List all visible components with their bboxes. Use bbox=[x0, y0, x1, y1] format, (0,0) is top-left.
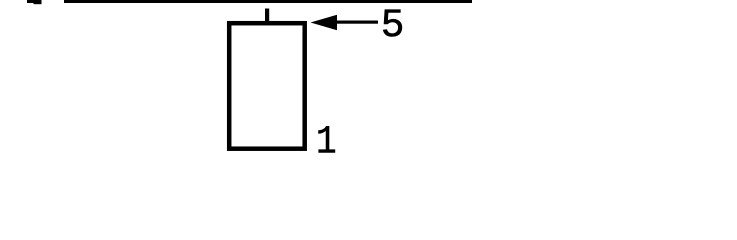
label 1 bbox=[316, 121, 337, 166]
leader arrow 5: arrowhead bbox=[311, 15, 338, 30]
node: terminal stub on top of component 1 bbox=[265, 9, 269, 23]
svg-text:5: 5 bbox=[381, 3, 405, 48]
leader arrow 5: shaft bbox=[335, 21, 378, 24]
wire: top horizontal line, short left dash bbox=[27, 0, 42, 3]
wire: blob at right end of short dash bbox=[34, 2, 42, 4]
component 1: rectangular body bbox=[229, 23, 305, 149]
svg-text:1: 1 bbox=[316, 121, 337, 158]
wire: top horizontal line, main segment bbox=[64, 0, 472, 3]
